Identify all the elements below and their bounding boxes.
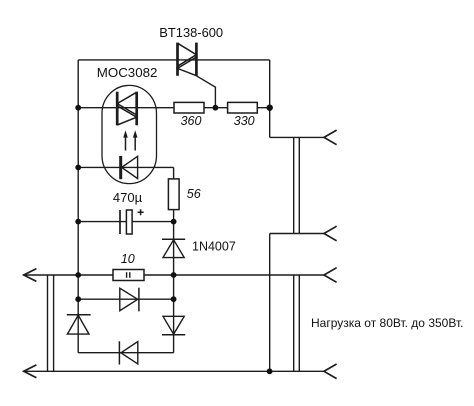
svg-text:470µ: 470µ — [113, 190, 143, 205]
svg-text:Нагрузка от 80Вт. до 350Вт.: Нагрузка от 80Вт. до 350Вт. — [311, 316, 463, 330]
svg-text:MOC3082: MOC3082 — [97, 65, 158, 80]
svg-text:330: 330 — [234, 114, 255, 128]
svg-text:BT138-600: BT138-600 — [159, 25, 223, 40]
svg-text:360: 360 — [181, 114, 202, 128]
svg-text:56: 56 — [187, 187, 201, 201]
svg-text:1N4007: 1N4007 — [192, 240, 236, 254]
svg-text:10: 10 — [121, 252, 135, 266]
